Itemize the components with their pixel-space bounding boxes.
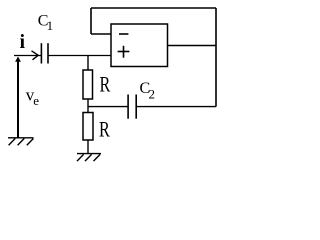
wire: feedback right vertical: [215, 8, 217, 107]
op-amp non-inverting sign: [118, 46, 130, 58]
op-amp inverting sign: [119, 33, 128, 35]
capacitor C2: [128, 95, 136, 119]
op-amp U1 box: [111, 24, 168, 67]
wire: junction down to R1: [87, 56, 89, 71]
ground left: [8, 138, 34, 145]
wire: input left segment: [14, 55, 41, 57]
svg-text:i: i: [20, 31, 26, 53]
svg-text:e: e: [33, 93, 39, 108]
resistor R2: [83, 113, 93, 141]
wire: R1 to node: [87, 99, 89, 113]
wire: op-amp output: [168, 45, 217, 47]
wire: feedback top: [91, 7, 216, 9]
svg-text:2: 2: [149, 87, 156, 102]
wire: R2 to ground: [87, 140, 89, 154]
current arrow on input wire: [32, 51, 39, 60]
ground right: [77, 154, 101, 162]
wire: C1 to op-amp + input: [48, 55, 111, 57]
capacitor C1: [41, 43, 48, 63]
svg-text:R: R: [100, 71, 111, 96]
resistor R1: [83, 70, 93, 99]
wire: feedback left vertical: [90, 8, 92, 34]
wire: node to C2: [88, 106, 128, 108]
wire: inverting input stub: [91, 33, 111, 35]
svg-text:R: R: [99, 117, 110, 142]
wire: C2 to feedback right vertical: [136, 106, 216, 108]
source arrow ve (vertical, head up): [17, 60, 19, 138]
svg-text:1: 1: [47, 18, 54, 33]
